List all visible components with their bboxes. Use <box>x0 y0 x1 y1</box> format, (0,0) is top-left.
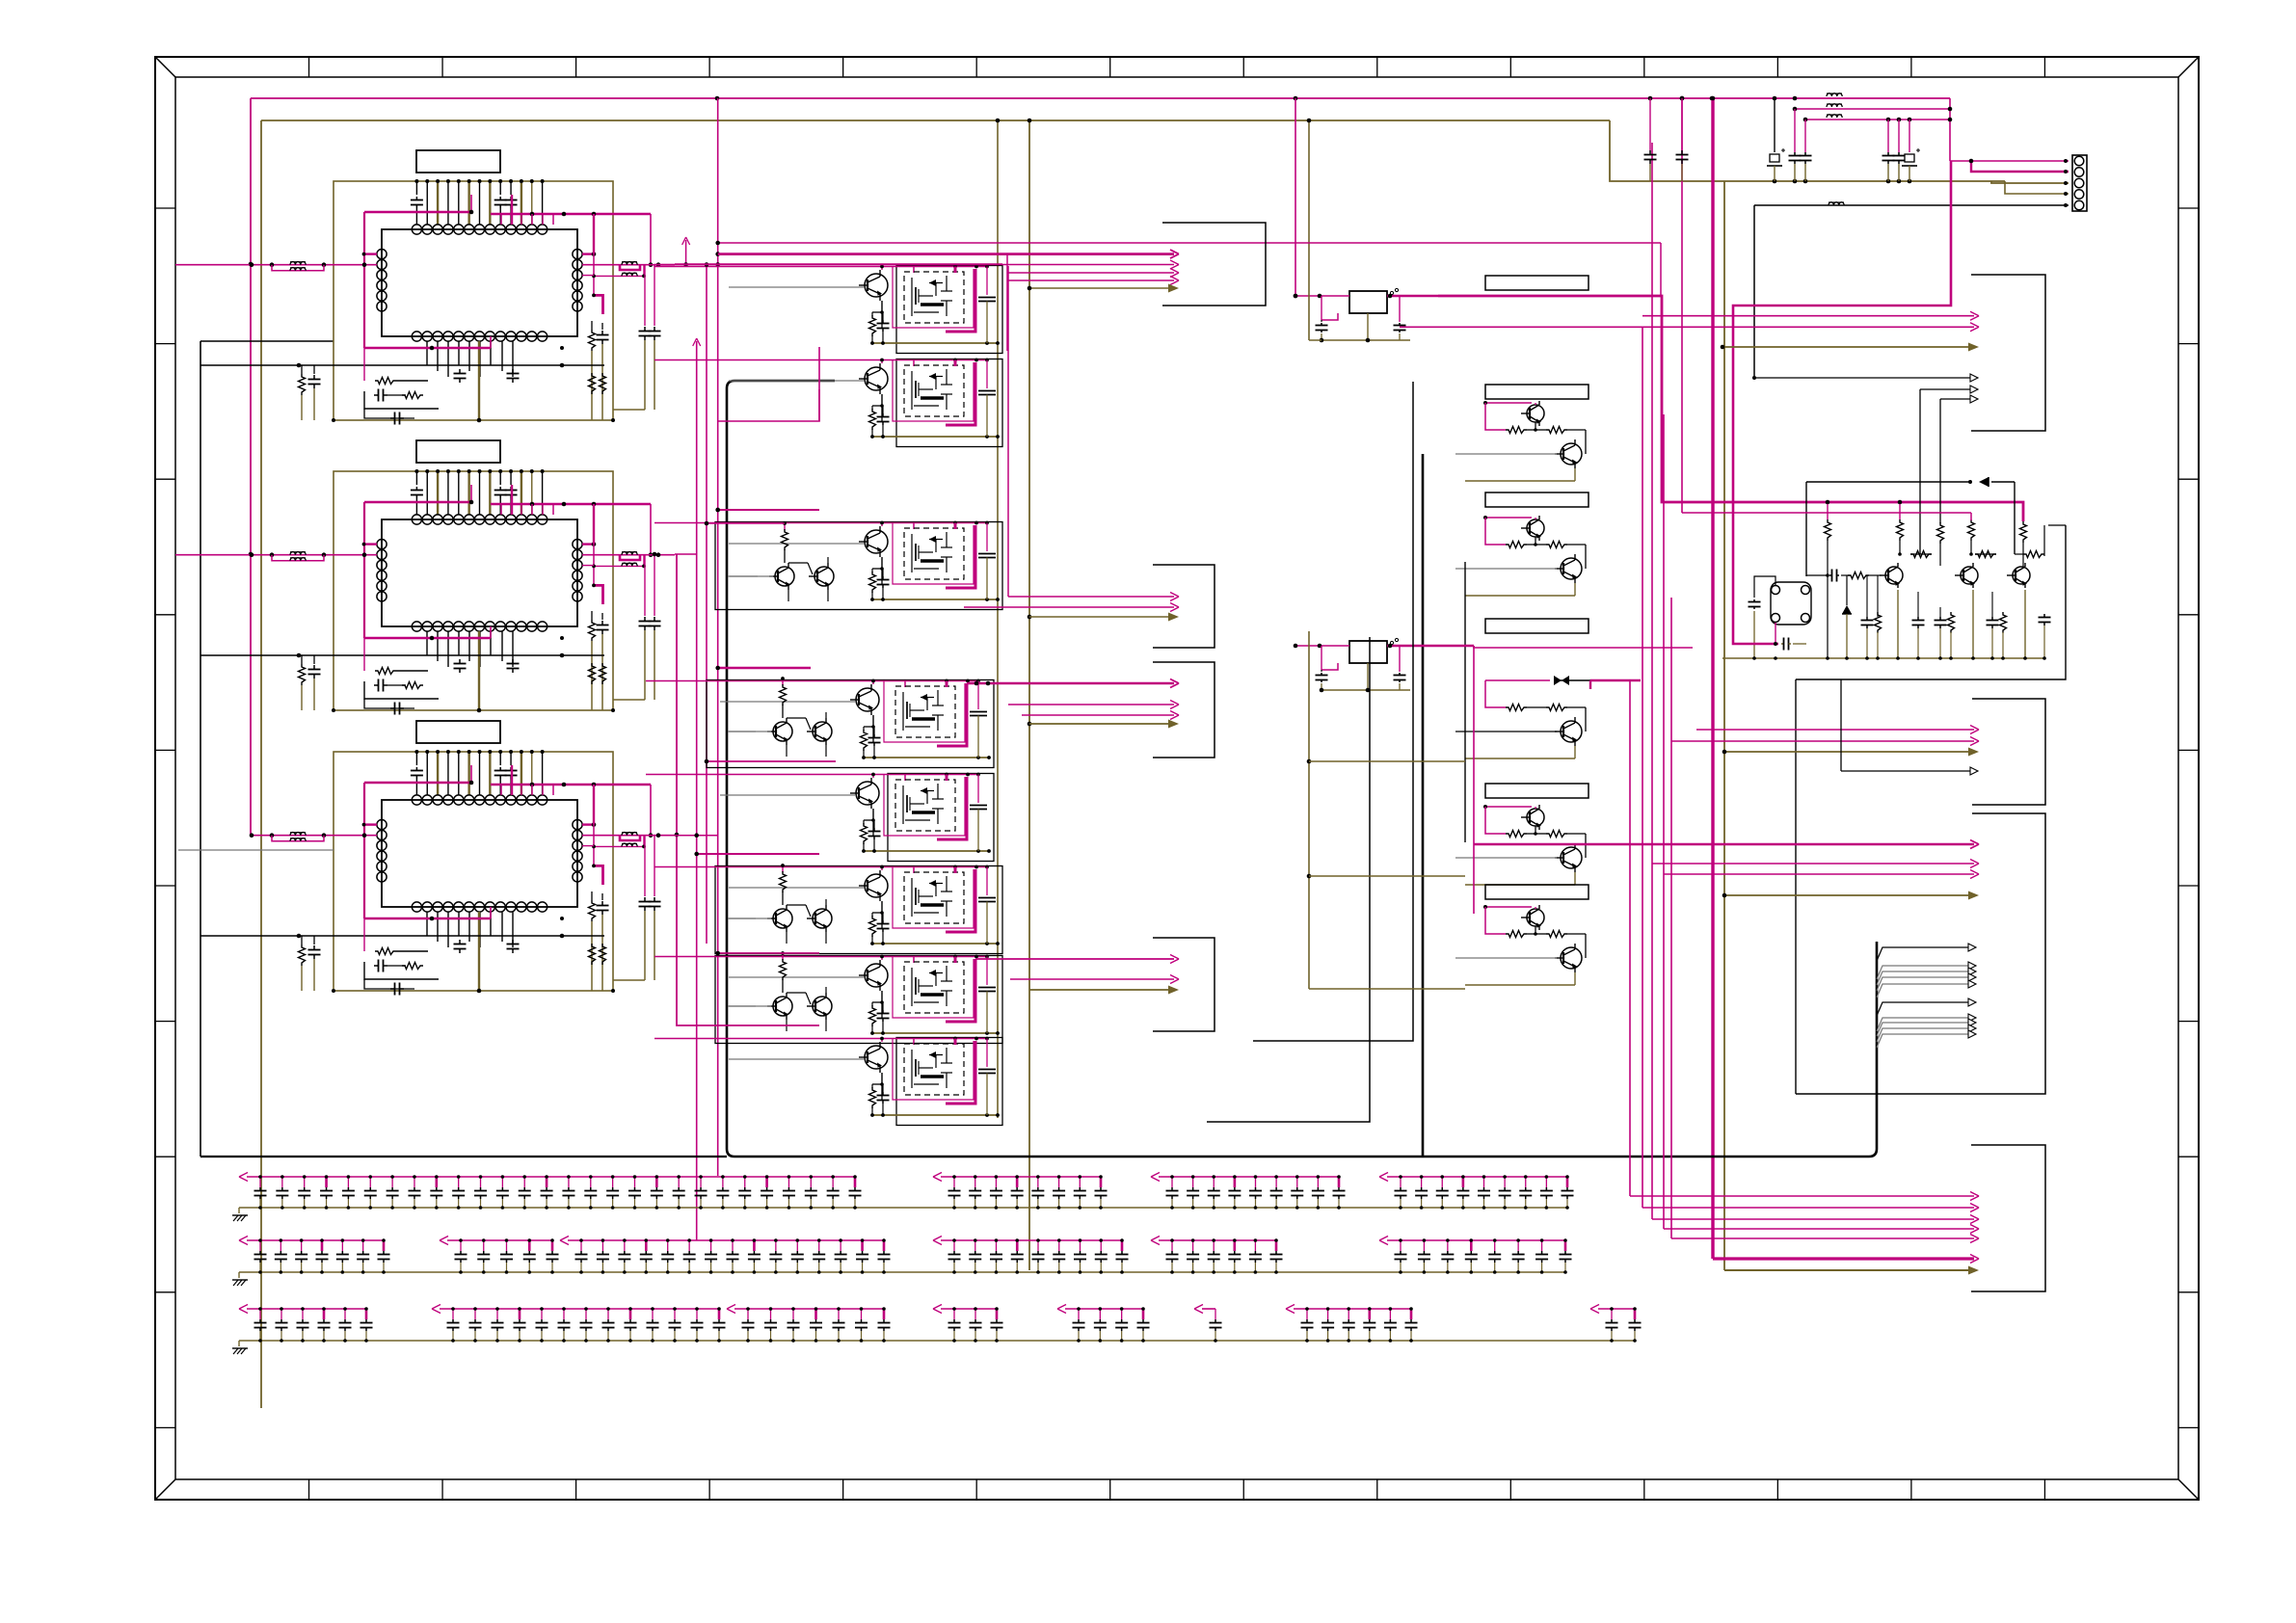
transistor driver cell Q2 with MOSFET pair <box>654 359 1002 447</box>
wire magenta y252 line <box>718 242 1661 244</box>
wire arrow B1 <box>1696 729 1974 731</box>
wire magenta cell8 feed <box>677 554 819 1025</box>
decoupling capacitor bank row 3 <box>232 1305 1642 1355</box>
magenta power bus top <box>251 97 1950 99</box>
wire arrow m1-1 <box>967 682 1174 685</box>
pre-driver transistor pair 4 <box>728 951 832 1031</box>
wire magenta vertical x1734 <box>1670 598 1672 1238</box>
wire arrow B2 <box>1671 740 1974 742</box>
wire arrow ic2out-2 <box>964 606 1174 608</box>
wire connector pin3 <box>1991 181 2069 183</box>
transistor driver cell Q4 with MOSFET pair <box>646 679 994 768</box>
wire olive vertical x1035 <box>997 120 999 1118</box>
wire magenta cell5 feed <box>707 760 836 762</box>
transistor driver cell Q3 with MOSFET pair <box>654 521 1002 610</box>
wire black left vertical <box>200 341 201 1157</box>
wire olive vertical x1068 <box>1028 120 1030 1270</box>
wire magenta cell2 feed <box>717 347 819 421</box>
wire arrow ic2out-3 <box>1029 616 1174 618</box>
wire arrow ic1out-5 <box>1029 287 1174 289</box>
wire arrow m2-3 <box>1029 989 1174 991</box>
ferrite bead FB1 <box>1827 93 1842 96</box>
wire olive right elbow <box>1610 120 2005 181</box>
wire magenta cell1 feed bus <box>718 253 1174 255</box>
right column label box 1 <box>1485 276 1589 290</box>
decoupling cap c6 <box>1887 120 1889 152</box>
sheet border frame <box>155 57 2199 1500</box>
polarized cap c8 <box>1909 120 1910 152</box>
wire magenta tpair3 line <box>707 522 785 524</box>
wire arrow A4 <box>1754 377 1970 379</box>
wire connector pin5 black <box>1754 204 2069 206</box>
wire arrow ic2out-1 <box>1008 596 1174 598</box>
wire black left stub <box>200 340 334 342</box>
wire magenta cell3 feed <box>718 509 819 511</box>
wire arrow A2 <box>1400 326 1974 328</box>
polarized cap c3 <box>1774 98 1775 152</box>
wire arrow C2 <box>1652 863 1974 865</box>
connector bracket D <box>1971 1145 2045 1291</box>
decoupling cap c7 <box>1898 120 1900 152</box>
wire arrow B3 <box>1724 751 1974 753</box>
connector bracket IC1-out <box>1162 223 1266 306</box>
wire magenta vertical x1714 <box>1651 143 1653 1219</box>
wire black thick vertical x1476 <box>1422 454 1425 1157</box>
decoupling cap c4 <box>1794 109 1796 152</box>
wire black L x1421 <box>1207 637 1370 1122</box>
connector bracket IC2-out <box>1153 565 1215 648</box>
decoupling cap c5 <box>1804 120 1806 152</box>
ferrite bead FB3 <box>1827 115 1842 118</box>
wire arrow ic1out-2 <box>654 264 1174 266</box>
connector bracket M2 <box>1153 938 1215 1031</box>
connector bracket A <box>1971 275 2045 431</box>
wire arrow m1-4 <box>1029 723 1174 725</box>
decoupling cap c1 <box>1649 98 1651 150</box>
connector bracket B <box>1972 699 2045 805</box>
wire magenta ic1 right long <box>675 263 1002 265</box>
wire magenta cell4 feed <box>718 667 811 669</box>
wire magenta connector drop <box>1949 98 1951 161</box>
wire arrow C3 <box>1664 873 1974 875</box>
power arrow up at x711 <box>685 240 687 265</box>
wire magenta cell1 thin <box>705 262 709 267</box>
olive bus left drop <box>260 120 262 1408</box>
wire magenta vertical x1726 <box>1663 414 1665 1229</box>
right driver cell C <box>1455 784 1589 885</box>
wire thick magenta vertical x1777 <box>1711 98 1714 1259</box>
decoupling capacitor bank row 1 <box>232 1173 1574 1222</box>
wire arrow A1 <box>1642 315 1974 317</box>
wire magenta vertical x1745 <box>1681 98 1683 513</box>
wire arrow C1 <box>1474 843 1974 846</box>
wire arrow A5 <box>1920 388 1970 390</box>
wire fan-out arrows C <box>1877 944 1976 1048</box>
IC U3 block with decoupling <box>200 721 675 996</box>
wire magenta vertical x1529 <box>1473 648 1475 914</box>
wire black vertical x1520 <box>1464 562 1466 842</box>
border zone tick marks <box>155 57 2199 1500</box>
connector bracket M1 <box>1153 662 1215 758</box>
wire arrow ic1out-4 <box>1007 279 1174 281</box>
wire magenta ic2 right long <box>675 553 697 555</box>
wire magenta bead line 3 <box>1805 119 1950 120</box>
wire arrow m1-2 <box>1008 704 1174 705</box>
olive bus top <box>261 120 1610 121</box>
magenta bus left drop <box>250 98 252 835</box>
pre-driver transistor pair 1 <box>730 521 834 601</box>
wire olive branch y790 <box>1309 760 1465 762</box>
IC U2 block with decoupling <box>175 440 675 715</box>
decoupling capacitor bank row 2 <box>232 1237 1572 1287</box>
wire magenta vertical x733 <box>706 265 707 945</box>
IC U1 block with decoupling <box>175 150 675 425</box>
transistor driver cell Q5 with MOSFET pair <box>646 773 994 862</box>
wire magenta vertical x744 <box>717 98 719 1176</box>
right column label box 4 <box>1455 619 1641 758</box>
wire magenta cell6 feed <box>697 853 819 855</box>
wire magenta cell2 top <box>818 346 820 348</box>
ferrite bead FB2 <box>1827 104 1842 107</box>
wire gray base bus <box>728 575 758 577</box>
wire olive vertical x1789 <box>1723 181 1725 1270</box>
wire magenta reg2 out <box>1438 645 1474 648</box>
oscillator and bias network block <box>1682 161 2066 1094</box>
right driver cell D <box>1455 885 1589 985</box>
wire arrow m2-1 <box>975 958 1174 960</box>
wire magenta reg1 out <box>1438 296 2023 521</box>
wire magenta reg1 in <box>1295 295 1296 297</box>
wire arrow m2-2 <box>1010 978 1174 980</box>
voltage regulator VR1 <box>1294 288 1438 342</box>
wire black enclosure right column <box>1253 382 1413 1041</box>
wire magenta riser2 <box>1474 646 1693 648</box>
transistor driver cell Q1 with MOSFET pair <box>654 265 1002 354</box>
wire bottom-right bundle arrows <box>1630 1192 1979 1275</box>
wire connector pin4 <box>2005 181 2069 194</box>
pre-driver transistor pair 2 <box>728 677 832 757</box>
right driver cell B <box>1455 492 1589 596</box>
transistor driver cell Q6 with MOSFET pair <box>654 865 1002 954</box>
wire arrow A6 <box>1940 398 1970 400</box>
wire gray ic3 left <box>178 849 334 851</box>
wire magenta vertical x722 <box>696 341 698 1240</box>
wire magenta cell1 vert right <box>1006 254 1008 351</box>
wire arrow C4 <box>1724 894 1974 896</box>
wire arrow ic1out-3 <box>1007 272 1174 274</box>
wire arrow B4 <box>1841 770 1970 772</box>
wire black vertical x1820 <box>1753 205 1755 378</box>
wire magenta mid riser 1 <box>818 389 820 421</box>
connector bracket C <box>1972 813 2045 1094</box>
connector J1 5-pin <box>2072 155 2087 211</box>
wire olive vertical x1358 <box>1308 631 1310 989</box>
right driver cell A <box>1455 385 1589 481</box>
wire arrow A3 <box>1722 346 1974 348</box>
wire olive branch y909 <box>1309 875 1465 877</box>
wire olive branch y1026 <box>1309 988 1465 990</box>
wire magenta riser x1344 <box>1295 98 1296 296</box>
wire magenta cell7 feed <box>718 952 819 954</box>
pre-driver transistor pair 3 <box>728 864 832 944</box>
transistor driver cell Q7 with MOSFET pair <box>654 955 1002 1044</box>
wire connector pin1 <box>1950 160 2069 162</box>
wire magenta ic3 right long <box>675 835 718 837</box>
voltage regulator VR2 <box>1294 638 1438 692</box>
decoupling cap c2 <box>1681 98 1683 150</box>
wire magenta vertical x1691 <box>1629 679 1631 1196</box>
transistor driver cell Q8 with MOSFET pair <box>654 1037 1002 1126</box>
decoupling capacitor row 3 single <box>1202 1308 1215 1310</box>
wire magenta bead line 2 <box>1795 108 1950 110</box>
wire connector pin2 <box>1971 161 2069 172</box>
wire black thick rounded enclosure <box>727 381 1877 1157</box>
wire arrow m1-3 <box>1022 714 1174 716</box>
wire magenta vertical x1704 <box>1642 328 1643 1208</box>
